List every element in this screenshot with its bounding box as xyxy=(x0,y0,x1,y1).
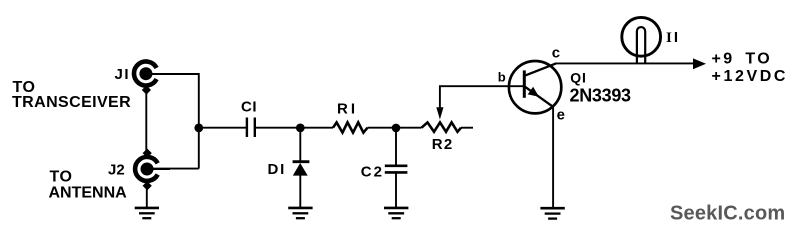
svg-text:TRANSCEIVER: TRANSCEIVER xyxy=(12,94,131,111)
svg-text:J2: J2 xyxy=(108,161,125,178)
svg-text:RI: RI xyxy=(337,101,358,118)
svg-text:QI: QI xyxy=(570,69,586,85)
svg-text:C2: C2 xyxy=(361,163,384,180)
svg-text:DI: DI xyxy=(268,161,287,178)
svg-text:2N3393: 2N3393 xyxy=(570,86,632,106)
svg-text:CI: CI xyxy=(241,99,257,116)
svg-text:TO: TO xyxy=(50,169,73,186)
svg-text:e: e xyxy=(557,107,565,124)
svg-text:II: II xyxy=(666,29,678,46)
svg-text:SeekIC.com: SeekIC.com xyxy=(670,202,785,224)
svg-text:+12VDC: +12VDC xyxy=(712,68,789,85)
svg-text:JI: JI xyxy=(115,66,131,83)
svg-text:R2: R2 xyxy=(432,136,454,153)
svg-text:+9 TO: +9 TO xyxy=(712,50,773,67)
svg-text:ANTENNA: ANTENNA xyxy=(49,184,128,201)
svg-text:b: b xyxy=(498,69,506,84)
svg-text:c: c xyxy=(552,45,560,62)
